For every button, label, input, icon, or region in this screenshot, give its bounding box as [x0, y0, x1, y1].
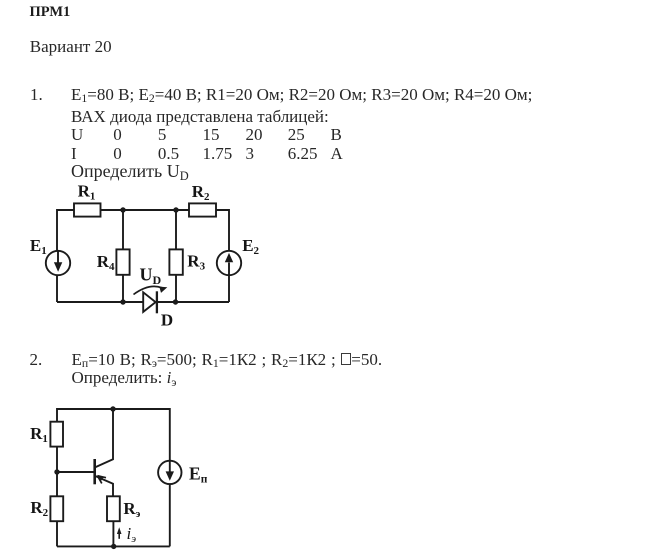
resistor Re: [107, 496, 120, 521]
svg-text:D: D: [161, 311, 173, 330]
node top-left: [120, 207, 125, 212]
node top: [110, 406, 115, 411]
table row U: [71, 126, 83, 143]
wire: R3 branch: [175, 210, 177, 302]
svg-text:R1: R1: [30, 424, 48, 445]
resistor R4: [116, 249, 129, 274]
svg-text:R1: R1: [78, 182, 96, 203]
emitter arrow: [97, 476, 106, 484]
wire: circuit1 right rail: [228, 209, 230, 302]
resistor R2: [189, 203, 216, 216]
svg-text:UD: UD: [140, 265, 162, 287]
item 1 line 2: [71, 108, 329, 125]
svg-text:R2: R2: [192, 182, 210, 203]
resistor R3: [169, 249, 182, 274]
transistor collector: [95, 409, 113, 468]
svg-text:E2: E2: [242, 236, 259, 257]
wire: circuit1 bottom: [57, 301, 229, 303]
source E1: [46, 251, 70, 275]
diode D: [143, 291, 157, 313]
item 2 line 1: [72, 351, 383, 368]
wire below Re: [112, 521, 114, 546]
subtitle Вариант 20: [30, 38, 112, 55]
wire: circuit2 left rail: [56, 408, 58, 546]
item 1 line: Определить UD: [71, 162, 189, 180]
node top-right: [173, 207, 178, 212]
item 2 number: [30, 351, 43, 368]
resistor R1: [74, 203, 101, 216]
node base-left: [54, 469, 59, 474]
svg-text:R3: R3: [187, 252, 205, 273]
transistor VT base bar: [93, 459, 96, 484]
svg-text:Eп: Eп: [189, 464, 208, 486]
item 1 line 1: [71, 86, 532, 103]
svg-text:iэ: iэ: [127, 524, 137, 545]
source Ep: [158, 461, 181, 484]
UD arc arrow: [134, 286, 168, 294]
wire: R4 branch: [122, 210, 124, 302]
node dots circuit1: [120, 207, 178, 304]
title ПРМ1: [30, 5, 71, 20]
node dots circuit2: [54, 406, 116, 549]
node bottom-left: [120, 299, 125, 304]
resistor R2 (2): [50, 496, 63, 521]
source E2: [217, 251, 241, 275]
item 2 line 2: [72, 369, 177, 386]
wire: circuit2 right rail: [169, 408, 171, 546]
wire: circuit2 top: [57, 408, 170, 410]
resistor R1 (2): [50, 422, 63, 447]
svg-text:Rэ: Rэ: [123, 499, 140, 520]
node bottom-right: [173, 299, 178, 304]
item 1 number: [30, 86, 43, 103]
svg-text:R2: R2: [30, 498, 48, 519]
svg-text:R4: R4: [97, 252, 115, 273]
wire: circuit1 left rail: [56, 209, 58, 302]
transistor emitter: [95, 476, 113, 497]
wire: circuit1 top: [57, 209, 229, 211]
svg-text:E1: E1: [30, 236, 47, 257]
wire: base: [57, 471, 95, 473]
table row I: [71, 145, 77, 162]
wire: circuit2 bottom: [57, 545, 170, 547]
node bottom: [111, 544, 116, 549]
ie arrow: [117, 527, 122, 539]
